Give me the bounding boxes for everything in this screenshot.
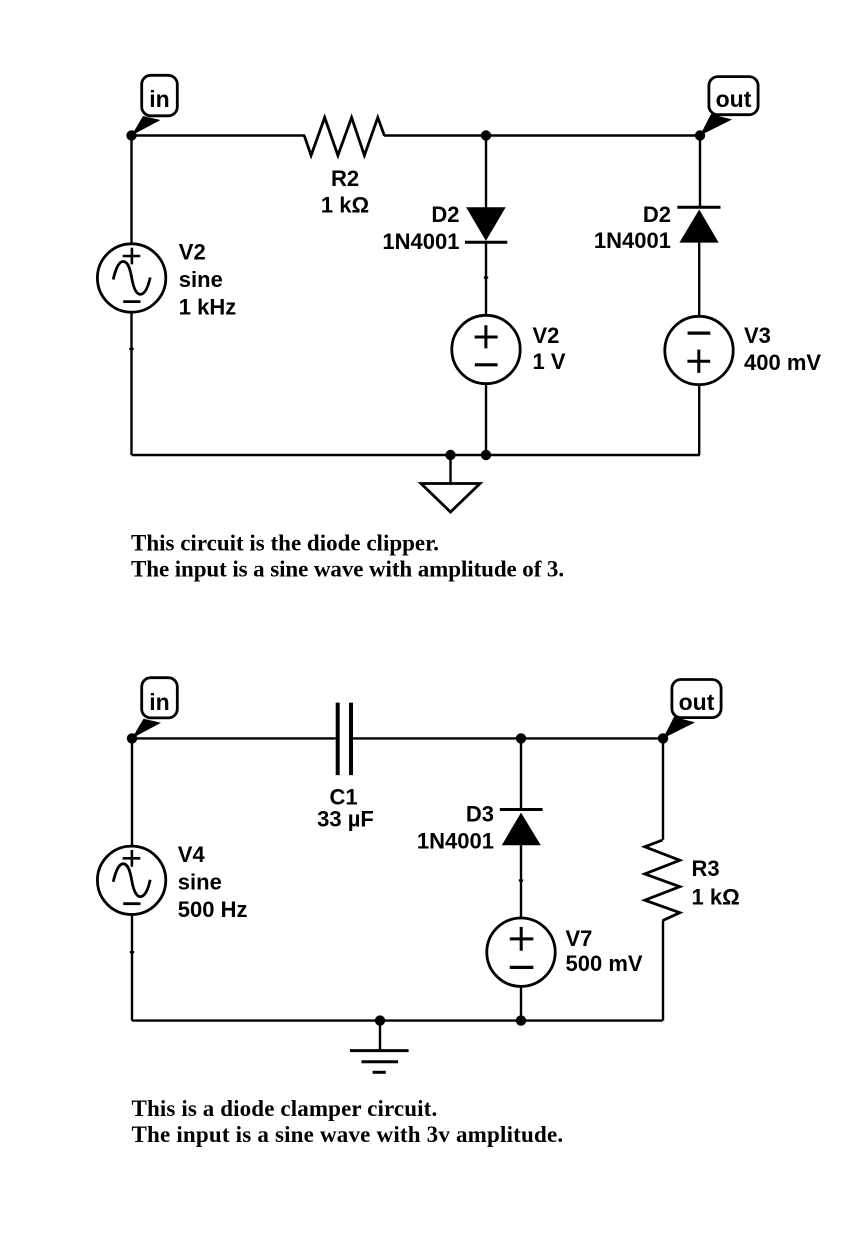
ground symbol circuit 1 (open triangle) [421, 484, 480, 513]
svg-text:500 mV: 500 mV [566, 951, 643, 976]
wire bottom rail circuit 2 [132, 1019, 663, 1021]
ground symbol circuit 2 bar 1 [350, 1049, 409, 1052]
flag tail in circuit 2 [132, 719, 161, 739]
AC source V4 circle [97, 846, 165, 914]
svg-text:This circuit is the diode clip: This circuit is the diode clipper. [131, 531, 439, 556]
resistor R2 [304, 118, 384, 156]
resistor R3 [645, 840, 680, 921]
svg-text:in: in [149, 689, 169, 715]
svg-text:1N4001: 1N4001 [382, 229, 459, 254]
diode D2 up cathode bar [677, 206, 720, 209]
node dot middle top circuit 1 [481, 130, 491, 140]
DC source V3 circle [665, 316, 733, 384]
DC source V2 plus sign [475, 325, 498, 348]
svg-text:33 µF: 33 µF [317, 807, 374, 832]
wire left rail circuit 2 lower [131, 914, 133, 1020]
wire top rail circuit 2 right segment [353, 737, 663, 739]
svg-text:V7: V7 [566, 926, 593, 951]
svg-text:This is a diode clamper circui: This is a diode clamper circuit. [132, 1096, 438, 1121]
wire joint nub middle column circuit 2 [519, 879, 523, 881]
wire left rail circuit 1 upper [130, 136, 132, 245]
svg-text:R2: R2 [331, 166, 359, 191]
diode D3 cathode bar [500, 808, 543, 811]
svg-text:400 mV: 400 mV [744, 350, 821, 375]
node dot out circuit 2 [658, 733, 668, 743]
wire joint nub left rail circuit 1 [129, 348, 133, 350]
wire joint nub left rail circuit 2 [130, 951, 134, 953]
DC source V7 circle [487, 918, 555, 986]
svg-text:V3: V3 [744, 323, 771, 348]
node dot in circuit 1 [126, 130, 136, 140]
flag tail in circuit 1 [132, 116, 161, 136]
node dot bottom middle circuit 1 [481, 450, 491, 460]
svg-text:1N4001: 1N4001 [594, 228, 671, 253]
svg-text:V2: V2 [533, 323, 560, 348]
diode D2 up triangle [679, 210, 718, 243]
svg-text:V4: V4 [178, 842, 206, 867]
ground symbol circuit 2 bar 2 [362, 1060, 399, 1063]
wire out column circuit 1 upper [699, 136, 701, 209]
DC source V7 minus sign [510, 966, 534, 969]
AC source V4 minus sign [123, 902, 140, 905]
svg-text:D2: D2 [431, 202, 459, 227]
wire out column circuit 2 lower [662, 921, 664, 1021]
svg-text:sine: sine [178, 870, 222, 895]
DC source V7 plus sign [510, 927, 534, 951]
wire top rail circuit 1 left segment [132, 134, 306, 136]
AC source V2 sine wave [113, 262, 150, 295]
svg-text:V2: V2 [179, 240, 206, 265]
wire source V3 to bottom rail [698, 385, 700, 456]
DC source V3 minus sign [688, 332, 711, 335]
AC source V4 sine wave [113, 864, 150, 897]
svg-text:The input is a sine wave with: The input is a sine wave with 3v amplitu… [132, 1122, 564, 1147]
diode D2 down triangle [466, 207, 506, 241]
svg-text:1 kHz: 1 kHz [179, 295, 236, 320]
flag box in circuit 2 [142, 678, 178, 718]
flag tail out circuit 1 [700, 114, 732, 136]
svg-text:1 V: 1 V [533, 349, 566, 374]
wire bottom rail circuit 1 [132, 454, 701, 456]
wire diode D2 to source V2 [485, 242, 487, 315]
node dot out circuit 1 [695, 130, 705, 140]
node dot in circuit 2 [127, 733, 137, 743]
wire joint nub middle column circuit 1 [484, 277, 488, 279]
svg-text:sine: sine [179, 267, 223, 292]
wire source V7 to bottom rail [520, 986, 522, 1020]
wire ground stub circuit 2 [379, 1021, 381, 1051]
AC source V2 minus sign [123, 300, 140, 303]
svg-text:500 Hz: 500 Hz [178, 897, 248, 922]
AC source V2 plus sign [123, 248, 141, 265]
flag tail out circuit 2 [663, 717, 695, 739]
diode D3 triangle [502, 813, 541, 846]
DC source V2 circle [452, 315, 520, 383]
flag box out circuit 1 [709, 77, 758, 115]
wire out column circuit 2 upper [662, 738, 664, 840]
svg-text:D3: D3 [466, 802, 494, 827]
svg-text:The input is a sine wave with: The input is a sine wave with amplitude … [131, 557, 564, 582]
node dot middle top circuit 2 [516, 733, 526, 743]
wire middle column circuit 2 upper [520, 738, 522, 809]
svg-text:1N4001: 1N4001 [417, 829, 494, 854]
svg-text:out: out [716, 86, 752, 112]
AC source V2 circle [97, 244, 165, 312]
wire top rail circuit 2 left segment [132, 737, 336, 739]
node dot ground circuit 2 [375, 1015, 385, 1025]
AC source V4 plus sign [123, 850, 141, 867]
capacitor C1 left plate [336, 703, 340, 776]
flag box in circuit 1 [142, 75, 178, 116]
wire middle column circuit 1 upper [485, 136, 487, 209]
diode D2 down cathode bar [465, 241, 507, 244]
wire ground stub circuit 1 [449, 455, 451, 484]
wire diode D3 to source V7 [520, 845, 522, 918]
wire left rail circuit 2 upper [131, 738, 133, 846]
wire top rail circuit 1 right segment [384, 134, 700, 136]
node dot bottom middle circuit 2 [516, 1015, 526, 1025]
DC source V3 plus sign [687, 350, 710, 373]
svg-text:D2: D2 [643, 202, 671, 227]
flag box out circuit 2 [672, 680, 721, 718]
capacitor C1 right plate [349, 703, 353, 776]
wire source V2 to bottom rail [485, 384, 487, 455]
wire diode D2 up to source V3 [698, 243, 700, 317]
svg-text:1 kΩ: 1 kΩ [321, 193, 369, 218]
svg-text:1 kΩ: 1 kΩ [692, 885, 740, 910]
wire left rail circuit 1 lower [130, 312, 132, 455]
svg-text:out: out [679, 689, 715, 715]
ground symbol circuit 2 bar 3 [373, 1071, 386, 1074]
svg-text:R3: R3 [692, 856, 720, 881]
DC source V2 minus sign [475, 363, 498, 366]
node dot ground circuit 1 [445, 450, 455, 460]
svg-text:in: in [149, 86, 169, 112]
